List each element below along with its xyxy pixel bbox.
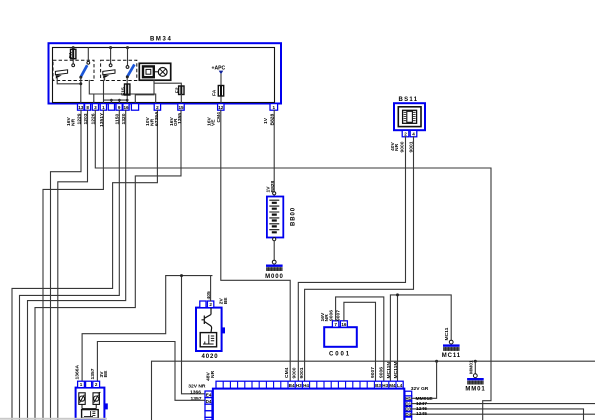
4020 pin (unnumbered) bbox=[200, 301, 206, 308]
C001 pin 16 bbox=[340, 321, 347, 327]
wire 1245 bbox=[412, 411, 595, 417]
connector right pin D3 bbox=[405, 407, 412, 412]
connector C001 box bbox=[324, 327, 357, 357]
wire B828 (1V) BM34 pin 1 to battery BB00 bbox=[263, 110, 276, 192]
connector right pin H1 bbox=[405, 396, 412, 401]
svg-text:13: 13 bbox=[78, 105, 84, 110]
svg-text:F2: F2 bbox=[175, 87, 181, 93]
ground rail wire 1357 to MM01 along bottom bbox=[152, 360, 595, 420]
svg-text:3: 3 bbox=[94, 105, 97, 110]
svg-text:1150: 1150 bbox=[115, 114, 121, 125]
svg-text:1320: 1320 bbox=[121, 113, 127, 124]
fuse F15 bbox=[120, 78, 129, 103]
connector top pin H4 bbox=[303, 383, 309, 388]
svg-text:2: 2 bbox=[156, 105, 159, 110]
svg-text:16: 16 bbox=[123, 105, 129, 110]
connector pin labels 9007 9006 MC11N MC11M bbox=[370, 361, 399, 378]
wire 1351Y BM34 pin 1 to bottom left bbox=[43, 110, 105, 420]
wire 9001 BS11 pin 4 to connector pin H4 bbox=[305, 137, 415, 381]
ground MM01 bbox=[465, 360, 485, 393]
svg-text:1V: 1V bbox=[263, 117, 269, 124]
wire: battery to ground M000 bbox=[273, 241, 275, 260]
sensor 4020 box bbox=[196, 308, 225, 360]
svg-text:VE: VE bbox=[211, 119, 217, 126]
svg-text:H3: H3 bbox=[296, 383, 302, 388]
svg-text:MC11: MC11 bbox=[444, 327, 450, 340]
fuse FA (left, inside BM34) bbox=[68, 48, 76, 67]
svg-text:1: 1 bbox=[102, 105, 105, 110]
svg-text:FA: FA bbox=[212, 89, 218, 96]
BM34 pin 3 bbox=[92, 104, 98, 111]
svg-text:1366A: 1366A bbox=[75, 365, 81, 380]
sensor pin 2 bbox=[93, 381, 100, 387]
wire 1226 BM34 pin 3 to right loop, down right side to bottom bbox=[91, 110, 491, 420]
connector top pin B3 bbox=[375, 383, 381, 388]
svg-text:CM4: CM4 bbox=[216, 112, 222, 123]
svg-text:+APC: +APC bbox=[212, 65, 226, 71]
svg-text:F15: F15 bbox=[120, 87, 126, 96]
svg-text:MM01: MM01 bbox=[468, 360, 474, 374]
BM34 pin 9 bbox=[116, 104, 122, 111]
svg-text:16: 16 bbox=[341, 322, 347, 327]
svg-text:BM34: BM34 bbox=[150, 37, 172, 43]
svg-text:C001: C001 bbox=[329, 351, 351, 357]
relay K2 coil feed terminal bbox=[109, 48, 112, 67]
svg-text:6739A: 6739A bbox=[154, 111, 160, 126]
relay K2 switch blade bbox=[126, 64, 135, 78]
wire 1320 BM34 pin 16 to bottom left bbox=[28, 110, 128, 420]
connector top pin M4 bbox=[389, 383, 396, 388]
sensor pin (unnumbered) bbox=[86, 381, 92, 387]
svg-text:D1: D1 bbox=[405, 401, 411, 406]
svg-text:B3: B3 bbox=[375, 383, 381, 388]
svg-text:MC11N: MC11N bbox=[386, 362, 392, 379]
svg-text:1357: 1357 bbox=[90, 368, 96, 379]
svg-text:B828: B828 bbox=[270, 180, 276, 192]
node: supply rail junction relay K2 switch bbox=[126, 46, 129, 49]
wire 9006 (16V NR) C001 pin 7 to connector pin H3 bbox=[320, 297, 384, 381]
relay K1 coil bbox=[55, 70, 67, 79]
connector pin labels CM4 9000 9001 bbox=[284, 367, 305, 378]
node: supply rail junction FA bbox=[72, 46, 75, 49]
4020 pin 2 bbox=[207, 301, 213, 308]
wire: module icon to unnumbered pin and fuse F2 bbox=[135, 80, 181, 103]
wire 9000 (40V NR) BS11 pin 2 to connector pin H3 bbox=[298, 137, 405, 381]
wire 6739A (10V NR) BM34 pin 2 to bottom left bbox=[12, 110, 160, 420]
connector top pin L4 bbox=[397, 383, 403, 388]
svg-text:BE: BE bbox=[103, 370, 109, 378]
svg-text:2: 2 bbox=[404, 131, 407, 136]
svg-text:H4: H4 bbox=[303, 383, 309, 388]
BM34 pin nc bbox=[108, 104, 114, 111]
svg-text:BE: BE bbox=[223, 297, 229, 305]
wire 9007 C001 pin 16 to connector pin B3 bbox=[335, 302, 375, 381]
connector top pin H3 bbox=[296, 383, 302, 388]
connector side pin D4 bbox=[205, 398, 212, 405]
sensor pin 1 bbox=[78, 381, 85, 387]
svg-text:4: 4 bbox=[412, 131, 415, 136]
labels 1366A 1357 3V BE bbox=[75, 365, 110, 380]
wire: ground rail to MM01 bbox=[474, 361, 476, 374]
svg-text:2: 2 bbox=[95, 382, 98, 387]
BM34 pin 8 bbox=[85, 104, 91, 111]
wire MM01E: pin H1 to ground rail bbox=[412, 361, 437, 402]
relay K2 switch contact bbox=[126, 48, 129, 69]
wire 1246 bbox=[412, 406, 584, 420]
svg-text:9001: 9001 bbox=[299, 367, 305, 378]
wire 1247 bbox=[412, 401, 595, 407]
connector side pins unnumbered bbox=[205, 404, 212, 420]
svg-text:B4: B4 bbox=[289, 383, 295, 388]
svg-text:9007: 9007 bbox=[335, 310, 341, 321]
+APC supply arrow bbox=[212, 65, 226, 74]
relay K2 coil bbox=[103, 70, 115, 79]
internal module icon (square + crossed circle) bbox=[139, 63, 170, 80]
wire: link risers to pins 9 and unnumbered bbox=[111, 100, 119, 104]
label 32V NR 1366 1357 bbox=[188, 383, 206, 401]
label 32V GR bbox=[411, 386, 429, 392]
svg-text:BB00: BB00 bbox=[291, 207, 297, 226]
connector right pin D4 bbox=[405, 412, 412, 417]
svg-text:1247: 1247 bbox=[416, 401, 427, 407]
svg-text:32V NR: 32V NR bbox=[188, 383, 206, 389]
relay K2 dashed enclosure bbox=[101, 60, 137, 80]
svg-text:9: 9 bbox=[118, 105, 121, 110]
wire MC11N / MC11M: connector pins M4, L4 to ground MC11 bbox=[390, 293, 451, 381]
svg-text:E4: E4 bbox=[206, 392, 212, 397]
svg-text:M000: M000 bbox=[265, 274, 284, 280]
svg-text:MC11M: MC11M bbox=[393, 361, 399, 378]
ground MC11 bbox=[442, 327, 461, 359]
svg-text:9006: 9006 bbox=[379, 367, 385, 378]
BS11 pin 4 bbox=[410, 130, 417, 136]
connector right pin nc bbox=[405, 391, 412, 396]
connector top pin H3 bbox=[382, 383, 388, 388]
BM34 pin 15 bbox=[178, 104, 184, 111]
ground M000 bbox=[265, 260, 284, 280]
svg-text:1203: 1203 bbox=[83, 113, 89, 124]
svg-text:1: 1 bbox=[80, 382, 83, 387]
wire: K1 to internal link pin 3 / pin 2 bbox=[89, 80, 155, 103]
svg-text:1351Y: 1351Y bbox=[99, 112, 105, 127]
fuse FA (+APC feed) bbox=[212, 74, 224, 103]
wire: K1 coil + switch to pin 13 bbox=[57, 77, 82, 103]
svg-text:D4: D4 bbox=[206, 399, 212, 404]
page edge mark (grey) bbox=[0, 418, 107, 420]
relay K1 switch contact bbox=[87, 48, 90, 65]
BS11 pin 2 bbox=[402, 130, 409, 136]
svg-text:1229: 1229 bbox=[76, 113, 82, 124]
svg-text:NR: NR bbox=[210, 370, 216, 378]
svg-text:2: 2 bbox=[209, 302, 212, 307]
svg-text:D4: D4 bbox=[405, 412, 411, 417]
connector side pin E4 bbox=[205, 391, 212, 398]
svg-text:FA: FA bbox=[68, 51, 74, 58]
svg-text:H3: H3 bbox=[382, 383, 388, 388]
svg-text:12: 12 bbox=[218, 105, 224, 110]
svg-text:B828: B828 bbox=[270, 113, 276, 125]
svg-text:9000: 9000 bbox=[399, 141, 405, 152]
connector right pin nc bbox=[405, 417, 412, 420]
wire 1355 (16V GR) BM34 pin 15 to bottom left bbox=[35, 110, 183, 420]
wire 1150 BM34 pin 9 to bottom left bbox=[20, 110, 121, 420]
battery BB00 bbox=[267, 192, 297, 241]
connector right pin D1 bbox=[405, 401, 412, 406]
node: supply rail junction relay K2 coil feed bbox=[109, 46, 112, 49]
BM34 pin 16 bbox=[123, 104, 129, 111]
svg-text:1355: 1355 bbox=[177, 113, 183, 124]
svg-text:D3: D3 bbox=[405, 407, 411, 412]
svg-text:1245: 1245 bbox=[416, 411, 427, 417]
BM34 pin 12 bbox=[218, 104, 224, 111]
wire 1229 (16V NR) BM34 pin 13 to bottom left bbox=[51, 110, 83, 420]
svg-text:9001: 9001 bbox=[409, 141, 415, 152]
svg-text:405: 405 bbox=[206, 291, 212, 299]
svg-text:7: 7 bbox=[334, 322, 337, 327]
wire: K2 coil to pin 1 distribution link bbox=[104, 79, 129, 104]
svg-text:L4: L4 bbox=[397, 383, 403, 388]
svg-text:9006: 9006 bbox=[328, 310, 334, 321]
C001 pin 7 bbox=[332, 321, 338, 327]
svg-text:9000: 9000 bbox=[291, 367, 297, 378]
svg-text:MC11: MC11 bbox=[442, 353, 461, 359]
svg-text:1357: 1357 bbox=[191, 396, 202, 402]
main harness connector (bottom strip) bbox=[213, 381, 404, 420]
relay K1 switch blade bbox=[79, 65, 87, 79]
BM34 pin nc bbox=[131, 104, 138, 111]
wire 1357: sensor pin 2 to connector pin D4 bbox=[97, 342, 204, 401]
svg-text:8: 8 bbox=[86, 105, 89, 110]
svg-text:1226: 1226 bbox=[91, 113, 97, 124]
connector top pin B4 bbox=[289, 383, 295, 388]
svg-text:M4: M4 bbox=[389, 383, 396, 388]
BS11 connector icon bbox=[398, 107, 421, 127]
ECU BS11 box bbox=[394, 97, 425, 130]
svg-text:CM4: CM4 bbox=[284, 367, 290, 378]
svg-text:BS11: BS11 bbox=[399, 97, 419, 103]
svg-text:NR: NR bbox=[394, 143, 400, 151]
4020 transistor bbox=[202, 308, 212, 332]
wire 405 (2V BE) net: 4020 pin 2, connector pin E4, sensor pin 1 bbox=[82, 274, 229, 394]
svg-text:1: 1 bbox=[273, 105, 276, 110]
svg-text:9007: 9007 bbox=[370, 367, 376, 378]
svg-text:1246: 1246 bbox=[416, 406, 427, 412]
wire 1203 BM34 pin 8 to bottom left bbox=[58, 110, 89, 420]
BM34 pin 2 bbox=[154, 104, 160, 111]
svg-text:H1: H1 bbox=[405, 396, 411, 401]
fuse F2 bbox=[175, 86, 185, 104]
BM34 pin 1 bbox=[100, 104, 106, 111]
svg-text:4020: 4020 bbox=[202, 354, 219, 360]
wire CM4 (16V VE) BM34 pin 12 to connector pin B4 bbox=[206, 110, 290, 381]
sensor internal elements bbox=[79, 392, 101, 418]
svg-text:NR: NR bbox=[71, 118, 77, 126]
label 48V NR at strip corner bbox=[206, 370, 217, 381]
label 1V B828 near battery bbox=[265, 180, 276, 192]
relay K1 dashed enclosure bbox=[53, 60, 94, 80]
BM34 pin 1 bbox=[270, 104, 278, 111]
svg-text:MM01: MM01 bbox=[465, 387, 485, 393]
BM34 pin 13 bbox=[78, 104, 85, 111]
sensor unit (bottom left) box bbox=[76, 388, 108, 420]
svg-text:32V GR: 32V GR bbox=[411, 386, 429, 392]
svg-text:1366: 1366 bbox=[190, 390, 201, 396]
4020 inner sensor element bbox=[200, 333, 216, 347]
ECU BM34 outer box bbox=[49, 37, 282, 104]
BM34 inner enclosure bbox=[53, 48, 275, 103]
svg-text:15: 15 bbox=[178, 105, 184, 110]
